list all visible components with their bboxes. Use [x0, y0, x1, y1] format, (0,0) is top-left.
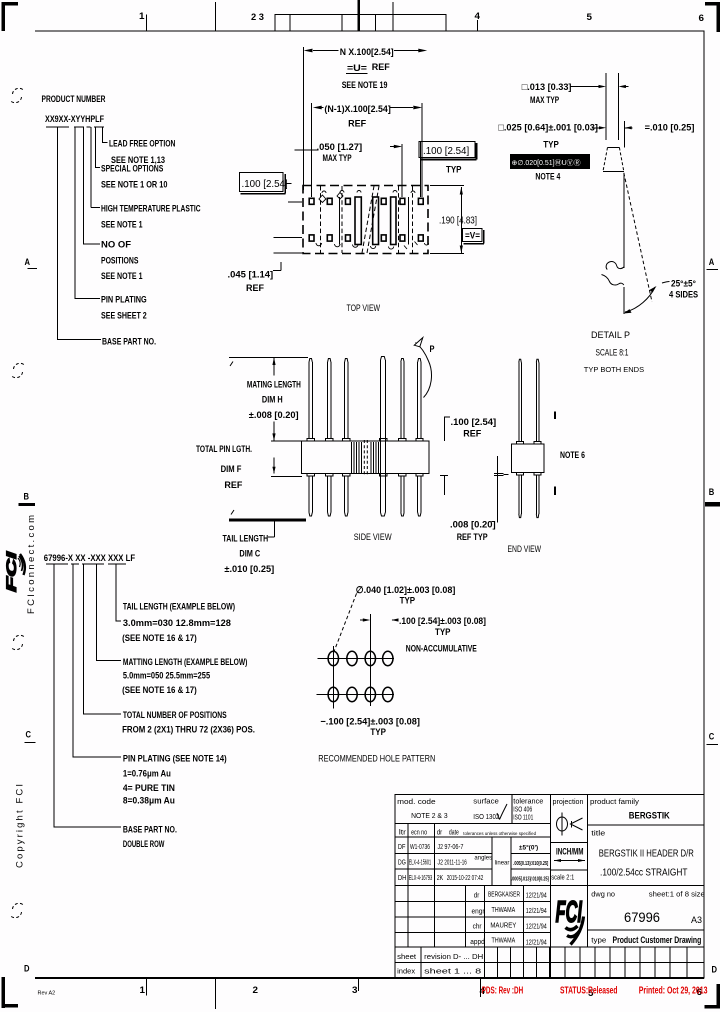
svg-text:LEAD FREE OPTION: LEAD FREE OPTION	[109, 139, 175, 150]
left margin rotated marks: dashed paren pairs	[11, 88, 25, 917]
svg-text:BERGSTIK II HEADER D/R: BERGSTIK II HEADER D/R	[599, 849, 694, 860]
svg-text:TOTAL NUMBER OF POSITIONS: TOTAL NUMBER OF POSITIONS	[123, 710, 227, 721]
svg-text:REF TYP: REF TYP	[457, 532, 489, 543]
svg-text:D: D	[24, 964, 30, 975]
svg-text:=V=: =V=	[465, 231, 480, 242]
svg-text:XX9XX-XYYHPLF: XX9XX-XYYHPLF	[45, 114, 104, 125]
svg-text:ltr: ltr	[399, 830, 407, 837]
svg-text:ISO 1302: ISO 1302	[473, 814, 499, 821]
svg-text:2015-10-22 07:42: 2015-10-22 07:42	[447, 875, 484, 882]
svg-text:□.013 [0.33]: □.013 [0.33]	[522, 82, 572, 93]
svg-text:MAX TYP: MAX TYP	[323, 153, 353, 164]
svg-text:A: A	[25, 257, 31, 268]
svg-text:BERGKAISER: BERGKAISER	[488, 892, 520, 899]
TOP VIEW: pins row1/row2 squares	[309, 198, 423, 241]
svg-text:RECOMMENDED HOLE PATTERN: RECOMMENDED HOLE PATTERN	[318, 754, 435, 765]
svg-text:DIM H: DIM H	[262, 395, 283, 406]
svg-text:MATTING LENGTH (EXAMPLE BELOW): MATTING LENGTH (EXAMPLE BELOW)	[123, 657, 247, 668]
svg-text:D: D	[712, 965, 718, 976]
svg-text:projection: projection	[553, 799, 584, 806]
TOP VIEW: small noise marks around pins	[316, 191, 429, 250]
svg-text:A3: A3	[691, 915, 702, 925]
svg-text:6: 6	[699, 13, 705, 24]
svg-text:FCIconnect.com: FCIconnect.com	[26, 515, 37, 614]
svg-text:NOTE 6: NOTE 6	[560, 450, 585, 461]
svg-text:TYP: TYP	[446, 165, 462, 176]
svg-text:4: 4	[475, 11, 481, 22]
svg-text:chr: chr	[473, 924, 483, 931]
label underline segments	[46, 126, 104, 128]
svg-text:A: A	[709, 257, 715, 268]
svg-text:DIM F: DIM F	[221, 464, 242, 475]
svg-text:.050 [1.27]: .050 [1.27]	[317, 142, 363, 153]
svg-text:REF: REF	[246, 283, 264, 294]
svg-text:FROM 2 (2X1) THRU 72 (2X36) PO: FROM 2 (2X1) THRU 72 (2X36) POS.	[122, 725, 255, 736]
svg-text:MAUREY: MAUREY	[490, 923, 516, 930]
FCI logo block	[556, 894, 584, 945]
tree leg: no of positions	[84, 127, 101, 244]
svg-text:97-06-7: 97-06-7	[444, 844, 463, 851]
svg-text:sheet:1 of 8 size: sheet:1 of 8 size	[649, 892, 705, 899]
svg-text:J2: J2	[438, 844, 444, 851]
svg-text:4= PURE TIN: 4= PURE TIN	[123, 783, 175, 794]
svg-text:ISO 406: ISO 406	[513, 807, 532, 814]
svg-text:THWAMA: THWAMA	[492, 907, 516, 914]
svg-text:END VIEW: END VIEW	[508, 544, 542, 555]
svg-text:DG: DG	[398, 860, 406, 867]
svg-text:TYP: TYP	[543, 140, 559, 151]
svg-text:.190 [4.83]: .190 [4.83]	[439, 216, 477, 227]
svg-text:sheet: sheet	[397, 954, 416, 961]
svg-text:DETAIL P: DETAIL P	[591, 330, 630, 340]
TOP VIEW: tall pins in break zone	[339, 197, 408, 245]
svg-text:REF: REF	[348, 119, 366, 130]
svg-text:1: 1	[140, 985, 146, 996]
svg-text:1=0.76μm Au: 1=0.76μm Au	[123, 769, 171, 780]
svg-text:surface: surface	[473, 799, 499, 806]
svg-text:THWAMA: THWAMA	[492, 938, 516, 945]
svg-text:MATING LENGTH: MATING LENGTH	[247, 380, 301, 391]
svg-text:tolerances unless otherwise sp: tolerances unless otherwise specified	[463, 831, 536, 836]
body	[302, 441, 430, 474]
tree leg: lead free option	[103, 127, 108, 143]
tree leg: special options	[96, 127, 101, 168]
TOP VIEW: .190 dim	[430, 186, 464, 254]
svg-text:BASE PART NO.: BASE PART NO.	[123, 825, 177, 836]
svg-text:±5°(0'): ±5°(0')	[519, 844, 538, 852]
pin body line with break	[602, 173, 670, 314]
svg-text:=.010 [0.25]: =.010 [0.25]	[645, 123, 695, 134]
svg-text:product family: product family	[590, 799, 640, 806]
svg-text:mod. code: mod. code	[397, 799, 436, 806]
svg-text:date: date	[449, 830, 459, 837]
svg-text:TYP: TYP	[370, 727, 386, 738]
svg-text:sheet 1 ... 8: sheet 1 ... 8	[424, 969, 481, 976]
svg-text:BERGSTIK: BERGSTIK	[629, 811, 670, 822]
svg-text:N X.100[2.54]: N X.100[2.54]	[340, 47, 394, 58]
svg-text:SEE NOTE 19: SEE NOTE 19	[342, 80, 388, 91]
svg-text:(N-1)X.100[2.54]: (N-1)X.100[2.54]	[324, 104, 390, 115]
svg-text:⊕∅.020[0.51]ⓂUⓋⓇ: ⊕∅.020[0.51]ⓂUⓋⓇ	[512, 159, 581, 167]
svg-text:.005[0.13]⁄.010[0.25]: .005[0.13]⁄.010[0.25]	[513, 861, 548, 867]
svg-text:TAIL LENGTH (EXAMPLE BELOW): TAIL LENGTH (EXAMPLE BELOW)	[123, 602, 235, 613]
svg-text:TYP BOTH ENDS: TYP BOTH ENDS	[584, 365, 644, 374]
svg-text:=U=: =U=	[347, 63, 367, 74]
side view left dims	[229, 357, 308, 537]
svg-text:.100 [2.54]: .100 [2.54]	[451, 417, 497, 428]
svg-text:PIN PLATING: PIN PLATING	[101, 295, 147, 306]
pin tip chamfers	[309, 357, 421, 517]
collar tabs top and bottom	[307, 439, 423, 476]
svg-text:.100 [2.54]: .100 [2.54]	[423, 146, 469, 157]
tree leg: base part no	[58, 127, 102, 340]
svg-text:MAX TYP: MAX TYP	[530, 95, 560, 106]
svg-text:Rev A2: Rev A2	[38, 991, 56, 997]
svg-text:Printed: Oct 29, 2013: Printed: Oct 29, 2013	[639, 985, 708, 997]
svg-text:67996: 67996	[624, 909, 660, 925]
svg-text:POSITIONS: POSITIONS	[101, 256, 138, 267]
TITLE BLOCK grid	[395, 795, 704, 978]
horizontals	[395, 823, 551, 825]
svg-text:REF: REF	[372, 62, 390, 73]
verticals	[511, 795, 513, 824]
top strip boxes (cut-off table at page top)	[275, 0, 446, 31]
svg-text:2K: 2K	[437, 875, 444, 882]
svg-text:8=0.38μm Au: 8=0.38μm Au	[123, 796, 175, 807]
.008 ref dim	[492, 456, 509, 523]
svg-text:FCI: FCI	[556, 894, 583, 929]
svg-text:DIM C: DIM C	[239, 549, 260, 560]
svg-text:DH: DH	[398, 875, 407, 882]
svg-text:SCALE 8:1: SCALE 8:1	[596, 348, 629, 359]
svg-text:dr: dr	[437, 830, 443, 837]
svg-text:B: B	[709, 487, 715, 498]
svg-text:2: 2	[253, 985, 259, 996]
tree leg: high temperature plastic	[91, 127, 100, 208]
svg-text:.100 [2.54]±.003 [0.08]: .100 [2.54]±.003 [0.08]	[399, 616, 486, 627]
svg-text:(SEE NOTE 16 & 17): (SEE NOTE 16 & 17)	[122, 633, 197, 644]
svg-text:SEE SHEET 2: SEE SHEET 2	[101, 311, 147, 322]
svg-text:PRODUCT NUMBER: PRODUCT NUMBER	[42, 94, 106, 105]
svg-text:ELX-4-16793: ELX-4-16793	[409, 875, 432, 882]
svg-text:.100 [2.54]: .100 [2.54]	[242, 179, 288, 190]
TOP VIEW: boxed .100 [2.54] row dim (left)	[240, 173, 303, 254]
svg-text:TYP: TYP	[400, 596, 416, 607]
svg-text:REF: REF	[224, 480, 242, 491]
svg-text:TYP: TYP	[435, 627, 451, 638]
svg-text:angles: angles	[474, 856, 492, 862]
svg-text:12/21/94: 12/21/94	[526, 893, 547, 900]
svg-text:NO OF: NO OF	[101, 240, 131, 251]
top zone ticks and numbers	[147, 2, 478, 31]
svg-text:Copyright FCI: Copyright FCI	[15, 784, 26, 868]
svg-text:DF: DF	[398, 844, 406, 851]
svg-text:□.025 [0.64]±.001 [0.03]: □.025 [0.64]±.001 [0.03]	[498, 123, 598, 134]
svg-text:appd: appd	[470, 939, 485, 946]
pins lower	[309, 476, 421, 513]
svg-text:PIN PLATING (SEE NOTE 14): PIN PLATING (SEE NOTE 14)	[123, 754, 227, 765]
svg-text:C: C	[26, 730, 32, 741]
svg-text:SIDE VIEW: SIDE VIEW	[354, 532, 392, 543]
svg-text:linear: linear	[495, 861, 510, 867]
svg-text:5: 5	[587, 12, 593, 23]
svg-text:12/21/94: 12/21/94	[526, 908, 547, 915]
TOP VIEW: overall N X .100 dimension	[304, 47, 423, 197]
svg-text:1: 1	[139, 11, 145, 22]
.100 ref leader right of side view	[440, 417, 450, 495]
svg-text:25°±5°: 25°±5°	[671, 279, 696, 290]
tree leg: pin plating	[75, 127, 100, 299]
svg-text:P: P	[430, 344, 436, 355]
svg-text:12/21/94: 12/21/94	[526, 940, 547, 947]
body break hatch	[352, 442, 379, 473]
svg-text:dwg no: dwg no	[591, 892, 615, 899]
svg-text:.008 [0.20]: .008 [0.20]	[450, 520, 496, 531]
svg-text:3: 3	[352, 985, 358, 996]
svg-text:type: type	[591, 938, 606, 945]
svg-text:INCH/MM: INCH/MM	[556, 847, 584, 858]
svg-text:STATUS:Released: STATUS:Released	[560, 985, 618, 997]
svg-text:±.008 [0.20]: ±.008 [0.20]	[249, 410, 299, 421]
svg-text:tolerance: tolerance	[513, 799, 543, 806]
svg-text:3.0mm=030 12.8mm=128: 3.0mm=030 12.8mm=128	[123, 618, 231, 629]
svg-text:SPECIAL OPTIONS: SPECIAL OPTIONS	[101, 164, 163, 175]
svg-text:J2: J2	[438, 860, 444, 867]
svg-text:4 SIDES: 4 SIDES	[669, 290, 698, 301]
svg-text:engr: engr	[472, 909, 486, 916]
svg-text:ISO 1101: ISO 1101	[513, 815, 533, 822]
svg-text:±.010 [0.25]: ±.010 [0.25]	[224, 564, 274, 575]
FCI logo left margin (rotated)	[4, 552, 25, 592]
TOP VIEW: boxed .100 [2.54] pitch dim (right)	[390, 141, 477, 197]
svg-text:SEE NOTE 1: SEE NOTE 1	[101, 220, 143, 231]
svg-text:revision D- ... DH: revision D- ... DH	[424, 954, 483, 961]
END VIEW	[511, 363, 555, 514]
svg-text:−.100 [2.54]±.003 [0.08]: −.100 [2.54]±.003 [0.08]	[320, 717, 420, 728]
svg-text:.0005[.013]⁄.010[0.25]: .0005[.013]⁄.010[0.25]	[511, 877, 549, 883]
svg-text:(SEE NOTE 16 & 17): (SEE NOTE 16 & 17)	[122, 685, 197, 696]
svg-text:5.0mm=050 25.5mm=255: 5.0mm=050 25.5mm=255	[123, 671, 211, 682]
svg-text:ELX-4-15601: ELX-4-15601	[409, 860, 431, 867]
svg-text:ecn no: ecn no	[411, 830, 427, 837]
svg-text:TOTAL PIN LGTH.: TOTAL PIN LGTH.	[196, 444, 252, 455]
svg-text:TAIL LENGTH: TAIL LENGTH	[223, 534, 269, 545]
svg-text:REF: REF	[463, 429, 481, 440]
RECOMMENDED HOLE PATTERN	[328, 651, 393, 701]
svg-text:DOUBLE ROW: DOUBLE ROW	[123, 839, 165, 850]
TOP VIEW: body dashed outline	[303, 186, 428, 254]
svg-text:NOTE 4: NOTE 4	[535, 172, 560, 183]
svg-text:2011-11-16: 2011-11-16	[444, 860, 466, 867]
svg-text:∅.040 [1.02]±.003 [0.08]: ∅.040 [1.02]±.003 [0.08]	[356, 585, 456, 596]
svg-text:index: index	[397, 969, 416, 976]
svg-text:PDS: Rev :DH: PDS: Rev :DH	[482, 985, 524, 997]
svg-text:B: B	[24, 492, 30, 503]
TOP VIEW: .050 dim	[295, 149, 319, 151]
svg-text:C: C	[709, 732, 715, 743]
svg-text:dr: dr	[474, 893, 480, 900]
svg-text:HIGH TEMPERATURE PLASTIC: HIGH TEMPERATURE PLASTIC	[101, 204, 201, 215]
svg-text:W1-0736: W1-0736	[410, 844, 430, 851]
DETAIL P (pin tip, scale 8:1)	[570, 73, 633, 148]
svg-text:2 3: 2 3	[251, 12, 264, 23]
svg-text:scale 2:1: scale 2:1	[551, 875, 574, 882]
svg-text:SEE NOTE 1 OR 10: SEE NOTE 1 OR 10	[101, 180, 167, 191]
svg-text:SEE NOTE 1: SEE NOTE 1	[101, 271, 143, 282]
detail P callout arrow	[416, 343, 432, 398]
svg-text:.045 [1.14]: .045 [1.14]	[228, 270, 274, 281]
bottom zone ticks and numbers	[147, 978, 481, 1009]
svg-text:Product Customer Drawing: Product Customer Drawing	[613, 935, 702, 946]
svg-text:BASE PART NO.: BASE PART NO.	[102, 337, 156, 348]
svg-text:67996-X XX -XXX XXX LF: 67996-X XX -XXX XXX LF	[44, 553, 135, 564]
svg-text:TOP VIEW: TOP VIEW	[347, 303, 381, 314]
svg-text:.100/2.54cc STRAIGHT: .100/2.54cc STRAIGHT	[600, 868, 688, 879]
pins upper	[309, 360, 421, 513]
svg-text:FCI: FCI	[4, 552, 19, 592]
svg-text:12/21/94: 12/21/94	[526, 924, 547, 931]
feature control frame (inverse)	[510, 154, 590, 169]
pin tip trapezoid	[603, 148, 624, 172]
svg-text:NON-ACCUMULATIVE: NON-ACCUMULATIVE	[406, 644, 477, 655]
svg-text:NOTE 2 & 3: NOTE 2 & 3	[411, 813, 448, 820]
svg-text:title: title	[591, 831, 605, 838]
